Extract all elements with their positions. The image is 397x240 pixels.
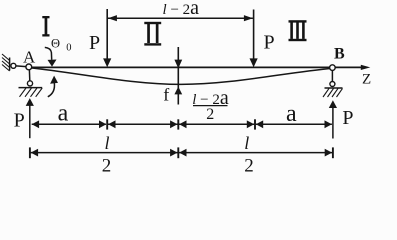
svg-text:l − 2a: l − 2a	[163, 0, 200, 19]
svg-text:Θ: Θ	[51, 37, 60, 51]
svg-text:Z: Z	[362, 71, 371, 87]
svg-text:A: A	[23, 47, 36, 66]
svg-text:l: l	[244, 133, 249, 153]
svg-text:P: P	[89, 32, 100, 54]
svg-text:l: l	[104, 133, 109, 153]
svg-text:f: f	[163, 84, 169, 104]
svg-text:P: P	[264, 31, 275, 53]
svg-text:P: P	[14, 110, 25, 132]
svg-text:2: 2	[244, 156, 254, 177]
svg-text:2: 2	[102, 156, 112, 177]
svg-text:a: a	[58, 100, 69, 126]
svg-text:B: B	[334, 45, 345, 62]
svg-text:a: a	[286, 101, 297, 127]
svg-text:0: 0	[66, 42, 71, 53]
svg-text:P: P	[342, 107, 353, 129]
svg-text:2: 2	[206, 106, 214, 123]
